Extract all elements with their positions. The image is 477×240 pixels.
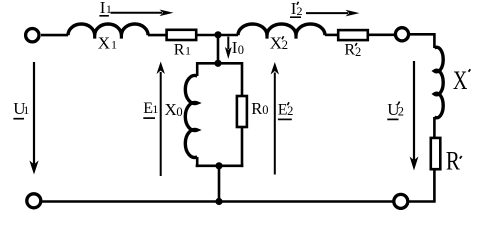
emf arrow E1 xyxy=(157,62,165,177)
label E1 xyxy=(143,100,158,118)
label I2' xyxy=(290,0,303,18)
current arrow I0 xyxy=(225,37,232,59)
label U2' xyxy=(387,100,404,119)
wire X' to R' xyxy=(433,117,436,138)
wire X1 to R1 xyxy=(148,34,166,37)
wire top-left horizontal xyxy=(41,34,68,37)
resistor R0 xyxy=(237,96,247,127)
svg-text:R: R xyxy=(251,99,262,118)
wire shunt top vertical xyxy=(217,35,220,64)
inductor X' xyxy=(434,47,443,118)
resistor R2' xyxy=(338,30,368,40)
label U1 xyxy=(13,99,29,119)
label I0 xyxy=(232,38,244,57)
svg-text:1: 1 xyxy=(185,44,191,58)
svg-text:0: 0 xyxy=(176,105,182,119)
label R0 xyxy=(251,99,268,118)
current arrow I2' xyxy=(306,10,360,17)
wire bottom horizontal xyxy=(42,200,395,203)
svg-text:R: R xyxy=(446,147,461,176)
terminal bottom-left xyxy=(27,194,41,208)
wire shunt bottom vertical xyxy=(218,166,221,202)
node junction bottom wire xyxy=(215,198,222,205)
svg-text:2: 2 xyxy=(287,104,293,118)
inductor X1 cusp ticks xyxy=(95,34,122,38)
svg-text:1: 1 xyxy=(152,102,158,116)
wire shunt top bar xyxy=(197,62,242,65)
svg-text:0: 0 xyxy=(238,43,244,57)
svg-text:I: I xyxy=(100,0,106,17)
svg-text:2: 2 xyxy=(282,38,288,52)
voltage arrow U1 xyxy=(29,62,38,175)
svg-text:X: X xyxy=(165,100,177,119)
svg-text:X: X xyxy=(270,34,282,53)
label I1 xyxy=(99,0,112,17)
wire R2' to top-right terminal xyxy=(369,33,395,36)
label X2' xyxy=(270,34,288,53)
label X0 xyxy=(165,100,183,119)
label E2' xyxy=(278,102,294,120)
wire R0 branch top lead xyxy=(241,62,244,96)
label R1 xyxy=(174,42,191,59)
node junction top xyxy=(214,31,221,38)
terminal bottom-right xyxy=(394,194,408,208)
inductor X0 xyxy=(185,76,197,158)
wire R' to bottom corner xyxy=(408,169,434,202)
wire X0 branch top lead xyxy=(196,62,199,76)
inductor X2' cusp ticks xyxy=(267,34,296,38)
svg-text:R: R xyxy=(344,42,355,59)
svg-text:2: 2 xyxy=(398,105,404,119)
svg-text:2: 2 xyxy=(297,4,303,18)
svg-text:X: X xyxy=(453,66,468,95)
svg-text:1: 1 xyxy=(23,103,29,117)
svg-text:X: X xyxy=(98,34,110,53)
label X1 xyxy=(98,34,117,53)
inductor X1 xyxy=(68,24,148,35)
resistor R' xyxy=(431,138,441,169)
wire shunt bottom bar xyxy=(196,165,244,168)
wire X0 branch bottom lead xyxy=(196,157,199,167)
svg-text:2: 2 xyxy=(355,45,361,59)
node junction shunt bottom xyxy=(215,162,222,169)
wire top-right corner xyxy=(409,34,434,48)
wire R0 branch bottom lead xyxy=(241,128,244,167)
inductor X2' xyxy=(238,24,325,35)
voltage arrow U2' xyxy=(410,61,419,171)
label R' xyxy=(446,147,462,176)
wire X2' to R2' xyxy=(325,34,338,37)
terminal top-right xyxy=(395,28,408,41)
label R2' xyxy=(344,42,361,59)
current arrow I1 xyxy=(111,10,174,17)
svg-text:1: 1 xyxy=(111,38,117,52)
resistor R1 xyxy=(167,30,197,40)
node junction shunt top xyxy=(214,60,221,67)
svg-text:0: 0 xyxy=(262,103,268,117)
terminal top-left xyxy=(26,29,39,42)
emf arrow E2' xyxy=(271,62,279,175)
wire R1 to node xyxy=(198,34,239,37)
svg-text:1: 1 xyxy=(106,2,112,16)
svg-text:R: R xyxy=(174,42,185,59)
label X' xyxy=(453,66,470,95)
